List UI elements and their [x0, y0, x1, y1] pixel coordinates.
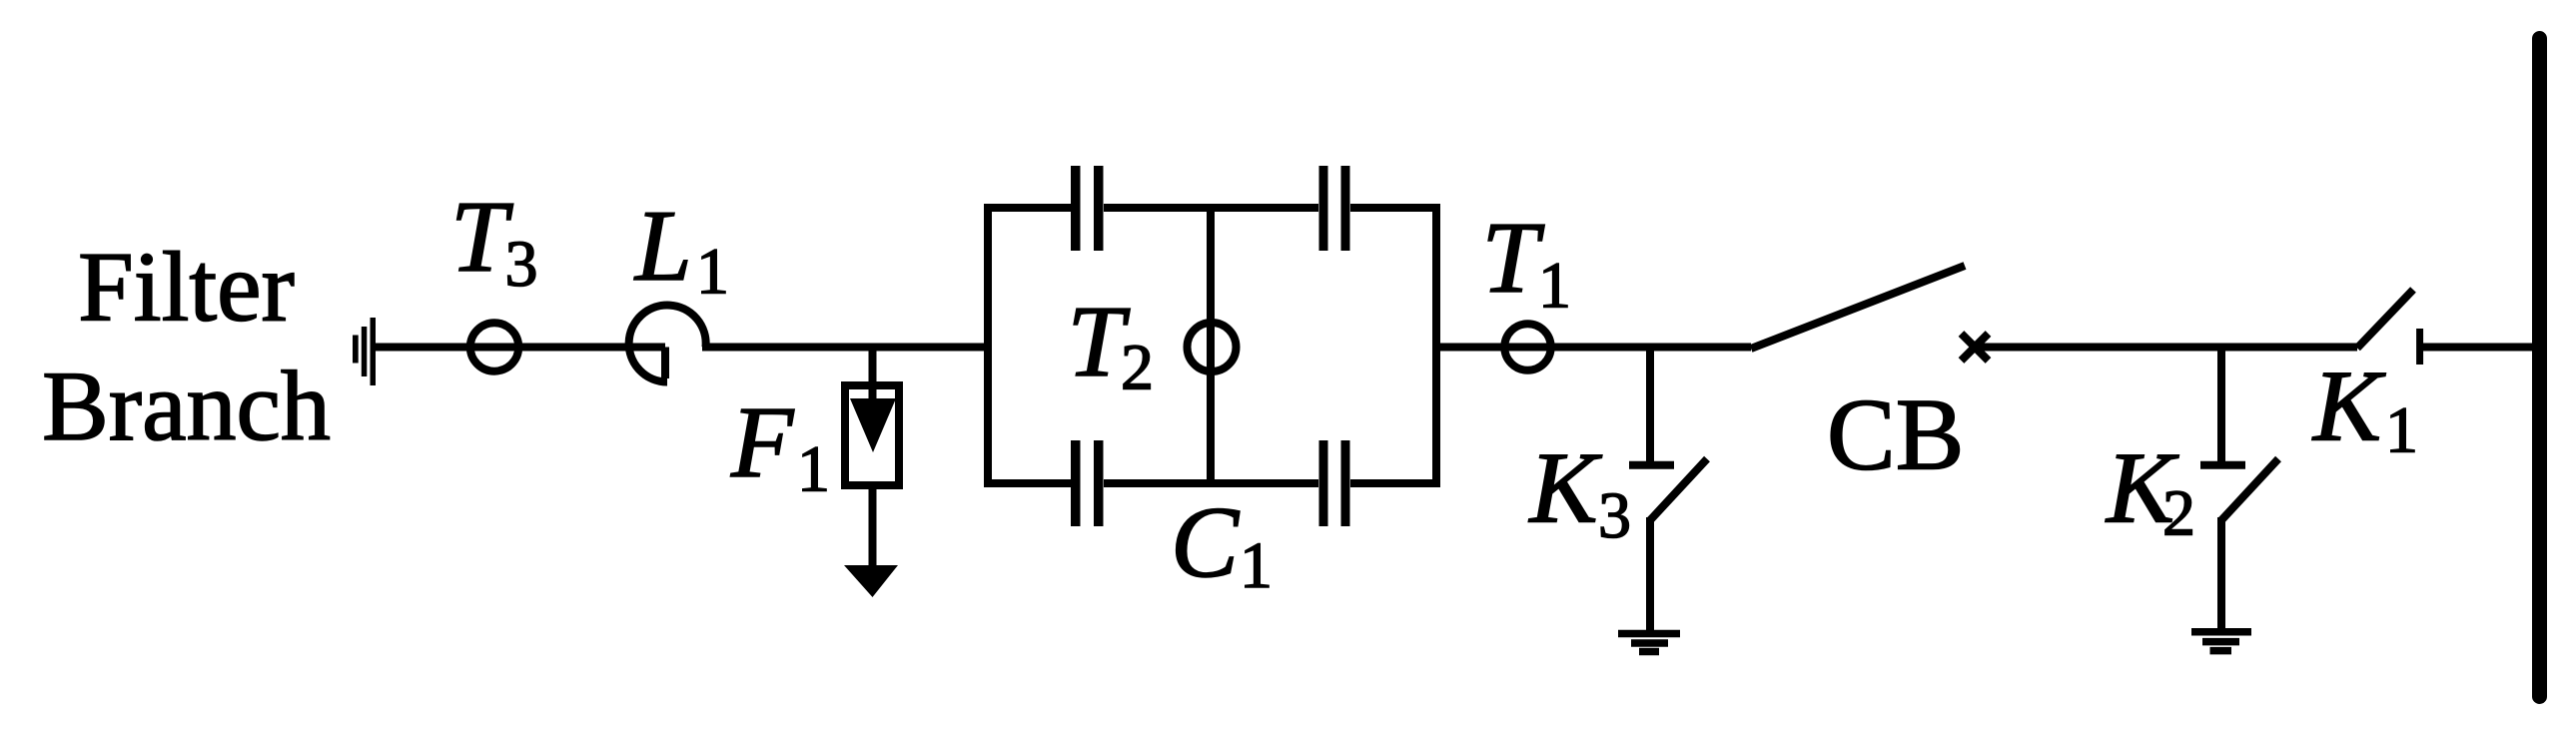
svg-text:Branch: Branch [42, 351, 331, 461]
svg-text:K: K [2311, 351, 2386, 463]
svg-text:K: K [1528, 432, 1603, 545]
svg-text:1: 1 [696, 236, 729, 309]
svg-text:2: 2 [2162, 477, 2195, 550]
svg-text:2: 2 [1121, 332, 1154, 404]
svg-text:3: 3 [505, 228, 538, 301]
svg-text:1: 1 [2385, 394, 2418, 467]
svg-text:F: F [730, 386, 795, 499]
svg-text:Filter: Filter [78, 232, 295, 343]
svg-text:L: L [633, 190, 692, 303]
svg-text:C: C [1171, 486, 1240, 599]
svg-text:T: T [1482, 202, 1545, 315]
svg-text:1: 1 [1538, 250, 1571, 323]
svg-text:1: 1 [797, 433, 830, 506]
svg-text:1: 1 [1240, 529, 1273, 602]
svg-text:3: 3 [1598, 479, 1631, 552]
svg-text:CB: CB [1827, 378, 1964, 492]
